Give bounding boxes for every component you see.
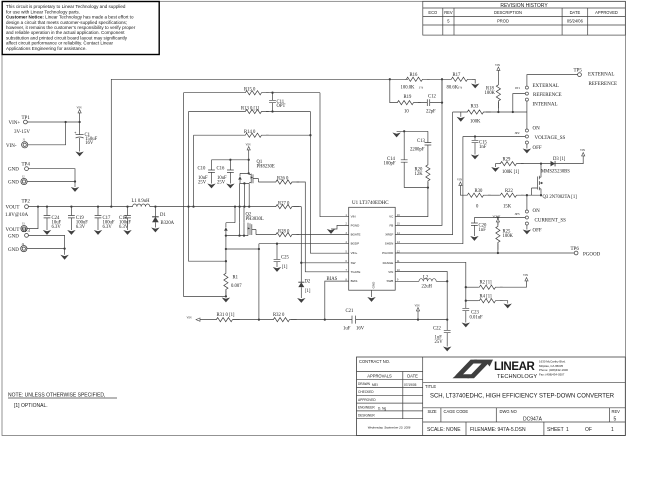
svg-text:D. Ng: D. Ng <box>378 406 386 410</box>
svg-text:22uH: 22uH <box>422 285 433 290</box>
svg-text:C21: C21 <box>346 309 354 314</box>
svg-text:C16: C16 <box>217 167 225 172</box>
svg-text:INTERNAL: INTERNAL <box>533 103 558 108</box>
svg-text:GND: GND <box>372 281 376 289</box>
svg-text:REV: REV <box>612 409 621 414</box>
svg-text:GND: GND <box>8 248 19 253</box>
svg-text:FB: FB <box>389 223 393 227</box>
svg-text:BIAS: BIAS <box>351 279 358 283</box>
svg-text:MMSZ5230BS: MMSZ5230BS <box>541 169 570 174</box>
resistor R16 <box>389 78 391 80</box>
svg-text:JP2: JP2 <box>515 131 520 135</box>
svg-text:1nF: 1nF <box>479 228 487 233</box>
wire BGDP row <box>259 243 349 245</box>
svg-text:XREF: XREF <box>385 233 393 237</box>
svg-text:CONTRACT NO.: CONTRACT NO. <box>359 359 390 364</box>
svg-text:SCALE: NONE: SCALE: NONE <box>427 427 461 433</box>
svg-text:J3: J3 <box>22 223 25 226</box>
svg-text:C10: C10 <box>198 167 206 172</box>
svg-text:SHEET: SHEET <box>547 427 564 433</box>
svg-text:R33: R33 <box>471 105 479 110</box>
svg-text:EXTERNAL: EXTERNAL <box>533 84 559 89</box>
svg-text:PGOOD: PGOOD <box>583 253 601 258</box>
svg-text:0.01uF: 0.01uF <box>470 316 484 321</box>
svg-text:BGATE: BGATE <box>351 233 361 237</box>
notice box <box>2 2 159 55</box>
svg-text:REVISION HISTORY: REVISION HISTORY <box>500 3 548 9</box>
svg-text:947A-5.DSN: 947A-5.DSN <box>498 427 526 433</box>
wire J3 to rail <box>27 207 38 229</box>
wire JP1 common to XREF row <box>513 94 527 112</box>
wire TP4 <box>28 169 75 187</box>
Linear Technology logo <box>453 360 569 380</box>
svg-text:22pF: 22pF <box>426 110 436 115</box>
svg-text:BIAS: BIAS <box>327 277 338 282</box>
svg-text:0.007: 0.007 <box>231 284 242 289</box>
svg-text:VOUT: VOUT <box>6 228 20 233</box>
svg-text:0: 0 <box>476 205 479 210</box>
svg-text:VIN: VIN <box>523 274 528 277</box>
ground TP3/J4 <box>60 255 68 260</box>
ground C24 <box>43 230 51 235</box>
ground C18 <box>123 230 131 235</box>
wire Q2 source riser <box>258 244 260 320</box>
svg-text:J1: J1 <box>23 139 26 142</box>
ground C23 <box>462 323 470 328</box>
svg-text:FILENAME:: FILENAME: <box>470 427 496 433</box>
ground R4 <box>504 304 512 309</box>
svg-text:15K: 15K <box>503 205 512 210</box>
ground R33 <box>460 112 462 117</box>
wire sense riser R15 <box>184 93 226 297</box>
svg-text:25V: 25V <box>198 180 207 185</box>
ground TP4/J2 <box>71 187 79 192</box>
svg-text:OF: OF <box>585 427 592 433</box>
svg-text:07/19/05: 07/19/05 <box>404 383 417 387</box>
svg-text:[1]: [1] <box>305 289 311 294</box>
capacitor C10 <box>211 160 213 184</box>
ground R17 <box>471 84 479 89</box>
svg-text:R19: R19 <box>404 95 412 100</box>
wire J1 to node <box>28 122 66 145</box>
svg-text:16V: 16V <box>85 141 94 146</box>
resistor R18 <box>496 84 500 109</box>
svg-text:R30: R30 <box>475 189 483 194</box>
capacitor C20 <box>471 223 478 225</box>
svg-text:Q3 2N7002TA [1]: Q3 2N7002TA [1] <box>543 195 578 200</box>
svg-text:REFERENCE: REFERENCE <box>533 93 562 98</box>
ground JP3 off <box>526 225 528 230</box>
resistor R1 <box>224 272 228 297</box>
wire TP1 to C1 <box>27 121 79 123</box>
wire R15 net to pin1 <box>320 93 349 217</box>
wire VIN bar <box>212 159 250 161</box>
ground C16 <box>226 184 234 189</box>
wire FB riser from VOUT rail <box>111 79 408 206</box>
wire SHDN riser to pin13 <box>395 137 463 244</box>
svg-text:9: 9 <box>397 278 399 281</box>
svg-text:VIN: VIN <box>388 270 393 274</box>
svg-text:VOUT: VOUT <box>6 205 20 210</box>
wire VC riser to pin16 <box>395 188 428 217</box>
wire VOUT rail <box>28 206 301 208</box>
svg-text:VIN: VIN <box>495 64 500 67</box>
ground C15 <box>471 155 479 160</box>
capacitor C16 <box>229 160 231 184</box>
resistor R19 <box>390 79 396 102</box>
svg-text:DATE: DATE <box>570 10 581 15</box>
svg-text:1%: 1% <box>458 86 463 90</box>
svg-text:100K: 100K <box>485 91 496 96</box>
svg-text:12K: 12K <box>415 172 424 177</box>
svg-text:R31 0 [1]: R31 0 [1] <box>217 313 235 318</box>
svg-text:TGATE: TGATE <box>351 270 361 274</box>
ground R29 <box>494 164 496 167</box>
ground D1 <box>151 228 159 233</box>
svg-text:CURRENT_SS: CURRENT_SS <box>535 218 567 223</box>
svg-text:TECHNOLOGY: TECHNOLOGY <box>497 374 537 380</box>
wire XREF row <box>453 111 527 113</box>
svg-text:VOLTAGE_SS: VOLTAGE_SS <box>535 136 566 141</box>
svg-text:1.8V@10A: 1.8V@10A <box>5 213 28 218</box>
svg-text:APPROVED: APPROVED <box>358 398 376 402</box>
svg-text:VIN+: VIN+ <box>351 251 358 255</box>
wire TP3 <box>28 235 64 254</box>
ground C17 <box>94 230 102 235</box>
wire R28 to BGATE <box>297 234 349 236</box>
svg-text:TP2: TP2 <box>22 200 31 205</box>
svg-text:VIN: VIN <box>187 317 192 320</box>
svg-text:VIN: VIN <box>580 149 585 152</box>
svg-text:PH8230E: PH8230E <box>257 164 275 169</box>
svg-text:OPT: OPT <box>277 104 286 109</box>
svg-text:SWB: SWB <box>386 279 393 283</box>
svg-text:D1: D1 <box>160 213 166 218</box>
svg-text:5: 5 <box>614 416 617 422</box>
svg-text:LINEAR: LINEAR <box>494 361 536 373</box>
resistor R20 <box>426 164 430 189</box>
svg-text:[1]: [1] <box>282 265 288 270</box>
transistor Q3 <box>532 164 542 196</box>
svg-text:TITLE: TITLE <box>425 384 436 389</box>
svg-text:25V: 25V <box>217 180 226 185</box>
capacitor C11 <box>272 93 274 112</box>
svg-text:R17: R17 <box>453 73 461 78</box>
svg-text:VC: VC <box>389 215 394 219</box>
svg-text:L1 0.9uH: L1 0.9uH <box>132 199 151 204</box>
svg-text:REV: REV <box>444 10 453 15</box>
jumper JP2 <box>526 112 528 129</box>
ground C19 <box>67 230 75 235</box>
ground C20 <box>470 236 478 241</box>
svg-text:GND: GND <box>8 235 19 240</box>
svg-text:JP3: JP3 <box>515 212 520 216</box>
svg-text:NOTE: UNLESS OTHERWISE SPECIFI: NOTE: UNLESS OTHERWISE SPECIFIED, <box>8 392 105 398</box>
svg-text:VIN: VIN <box>415 305 420 308</box>
capacitor C23 <box>462 308 469 310</box>
svg-text:VIN: VIN <box>77 107 82 110</box>
svg-text:ENGINEER: ENGINEER <box>358 406 375 410</box>
ground C1 <box>75 152 83 157</box>
ground JP2 off <box>526 144 528 149</box>
wire J2 <box>27 181 75 183</box>
svg-text:CHECKED: CHECKED <box>358 390 374 394</box>
svg-text:APPROVALS: APPROVALS <box>367 374 392 379</box>
svg-text:B320A: B320A <box>161 221 175 226</box>
svg-text:6.3V: 6.3V <box>52 225 62 230</box>
wire R13 riser to pin5 <box>310 112 348 254</box>
svg-text:BGDP: BGDP <box>351 242 360 246</box>
resistor R25 <box>496 225 500 250</box>
wire JP2 common to SHDN <box>463 137 526 141</box>
svg-text:U1 LT3740EDHC: U1 LT3740EDHC <box>352 201 389 206</box>
capacitor C18 <box>127 207 129 230</box>
diode D2 <box>300 263 302 298</box>
svg-text:1nF: 1nF <box>479 145 487 150</box>
svg-text:100.0K: 100.0K <box>401 86 416 91</box>
svg-text:OFF: OFF <box>533 228 542 233</box>
jumper JP3 <box>526 195 528 210</box>
svg-text:6.3V: 6.3V <box>103 225 113 230</box>
ground U1 GND pin <box>371 290 373 297</box>
svg-text:PGOOD: PGOOD <box>382 251 394 255</box>
ground D2 <box>297 298 305 303</box>
wire sense riser R13 <box>189 112 226 262</box>
svg-text:1%: 1% <box>419 86 424 90</box>
ground C25 <box>273 267 281 272</box>
svg-text:3V-15V: 3V-15V <box>14 130 30 135</box>
svg-text:MEI: MEI <box>372 383 378 387</box>
svg-text:DESIGNER: DESIGNER <box>358 413 375 417</box>
svg-text:PROD: PROD <box>497 19 509 24</box>
svg-text:D2: D2 <box>305 280 311 285</box>
svg-text:JP1: JP1 <box>515 86 520 90</box>
title block <box>357 357 626 436</box>
svg-text:DWG NO: DWG NO <box>500 409 517 414</box>
svg-text:DESCRIPTION: DESCRIPTION <box>494 10 522 15</box>
svg-text:10: 10 <box>404 110 409 115</box>
note text <box>8 392 117 409</box>
inductor L2 <box>395 280 447 282</box>
svg-text:REFERENCE: REFERENCE <box>589 82 618 87</box>
wire RANGE riser <box>395 262 466 308</box>
svg-text:OFF: OFF <box>533 146 542 151</box>
capacitor C1 <box>74 132 83 138</box>
capacitor C22 <box>446 320 448 347</box>
svg-text:1uF: 1uF <box>343 327 351 332</box>
svg-text:DC947A: DC947A <box>523 416 543 422</box>
capacitor C14 <box>403 131 405 187</box>
wire R27 riser to SW pin <box>301 207 348 263</box>
svg-text:GND: GND <box>8 168 19 173</box>
ground comp top <box>397 130 428 132</box>
svg-text:VOUT: VOUT <box>493 216 501 219</box>
capacitor C17 <box>97 207 99 230</box>
svg-text:VIN+: VIN+ <box>9 121 21 126</box>
capacitor C24 <box>46 207 48 230</box>
svg-text:R16: R16 <box>410 73 418 78</box>
svg-text:C22: C22 <box>433 327 441 332</box>
wire FB riser to pin15 <box>395 79 442 225</box>
svg-text:1: 1 <box>611 427 614 433</box>
svg-text:RANGE: RANGE <box>383 261 394 265</box>
capacitor C12 <box>418 99 442 106</box>
svg-text:C12: C12 <box>428 95 436 100</box>
diode D1 <box>154 205 156 207</box>
ground C22 <box>443 347 451 352</box>
capacitor C15 <box>472 140 479 142</box>
svg-text:TP5: TP5 <box>574 69 583 74</box>
svg-text:PH3830L: PH3830L <box>246 217 264 222</box>
svg-text:DRAWN: DRAWN <box>358 382 371 386</box>
svg-text:6.3V: 6.3V <box>76 225 86 230</box>
svg-text:Applications Engineering for a: Applications Engineering for assistance. <box>6 46 87 51</box>
svg-text:APPROVED: APPROVED <box>595 10 618 15</box>
wire J4 <box>27 248 65 250</box>
svg-text:Wednesday, September 20, 2006: Wednesday, September 20, 2006 <box>368 426 411 430</box>
wire R26 to TGATE <box>297 182 349 272</box>
wire sense riser R14 <box>193 135 195 206</box>
svg-text:100pF: 100pF <box>384 162 396 167</box>
ground PGND pin2 <box>331 225 349 229</box>
svg-text:PGND: PGND <box>351 223 361 227</box>
svg-text:1: 1 <box>566 427 569 433</box>
capacitor C25 <box>276 244 278 267</box>
svg-text:SIZE: SIZE <box>428 409 437 414</box>
svg-text:100K: 100K <box>503 234 514 239</box>
svg-text:05/24/06: 05/24/06 <box>567 19 584 24</box>
svg-text:ON: ON <box>533 127 541 132</box>
svg-text:VIN-: VIN- <box>6 144 17 149</box>
svg-text:SHDN: SHDN <box>385 242 394 246</box>
svg-text:ON: ON <box>533 209 541 214</box>
wire XREF riser to pin14 <box>395 112 452 235</box>
svg-text:C25: C25 <box>281 256 289 261</box>
wire BIAS riser <box>325 281 349 320</box>
ground C10 <box>207 184 215 189</box>
svg-text:R27 0: R27 0 <box>278 201 290 206</box>
svg-text:VIN: VIN <box>246 144 251 147</box>
svg-text:ECO: ECO <box>428 10 437 15</box>
svg-text:GND: GND <box>8 181 19 186</box>
svg-text:C13: C13 <box>417 139 425 144</box>
svg-text:EXTERNAL: EXTERNAL <box>588 73 614 78</box>
wire PGOOD row <box>395 252 574 254</box>
svg-text:R28 0: R28 0 <box>278 229 290 234</box>
svg-text:VIN: VIN <box>351 215 356 219</box>
svg-text:SCH, LT3740EDHC, HIGH EFFICIEN: SCH, LT3740EDHC, HIGH EFFICIENCY STEP-DO… <box>430 394 615 400</box>
wire JP3 common row <box>474 218 525 226</box>
svg-text:VIN: VIN <box>457 179 462 182</box>
svg-text:[1] OPTIONAL.: [1] OPTIONAL. <box>14 403 48 409</box>
svg-text:2200pF: 2200pF <box>410 148 425 153</box>
svg-text:DATE: DATE <box>407 374 418 379</box>
svg-text:R1: R1 <box>233 276 239 281</box>
wire L2 node to bottom rail <box>446 281 448 319</box>
capacitor C13 <box>427 131 429 163</box>
ground R1 <box>222 298 230 303</box>
revision history table <box>423 1 626 35</box>
capacitor C19 <box>70 207 72 230</box>
svg-text:16V: 16V <box>356 327 365 332</box>
svg-text:5: 5 <box>447 19 450 24</box>
svg-text:SW: SW <box>351 261 356 265</box>
svg-text:100K [1]: 100K [1] <box>502 170 519 175</box>
wire VIN pin10 <box>395 272 447 282</box>
svg-text:25V: 25V <box>435 340 444 345</box>
svg-text:R2 [1]: R2 [1] <box>480 281 493 286</box>
svg-text:CAGE CODE: CAGE CODE <box>444 409 469 414</box>
wire TP5 to JP1 <box>527 75 578 86</box>
svg-text:6.3V: 6.3V <box>119 225 129 230</box>
svg-text:100K: 100K <box>470 119 481 124</box>
svg-text:Fax: (408)434-0507: Fax: (408)434-0507 <box>539 372 565 376</box>
